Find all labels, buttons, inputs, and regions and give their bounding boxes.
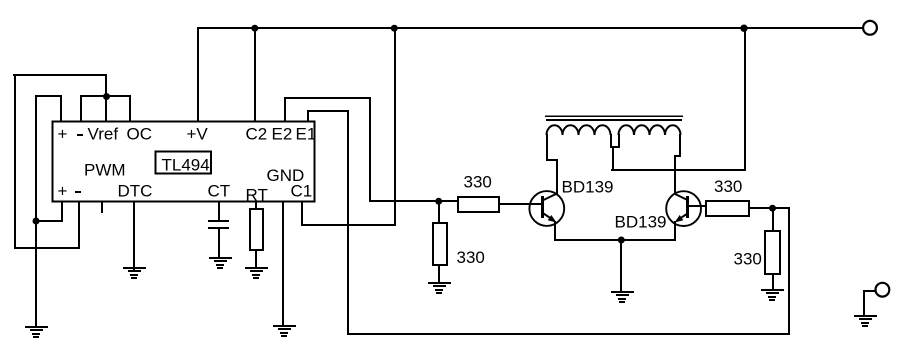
pin stub (unconnected, below box) xyxy=(101,202,103,213)
transistor Q1 BD139 xyxy=(529,191,564,226)
wire E1 long drop xyxy=(347,110,349,335)
node emitter rail junction xyxy=(618,237,625,244)
transistor Q2 BD139 (mirrored) xyxy=(666,191,701,226)
wire E1 loop top xyxy=(307,110,349,112)
resistor R3 330 (vertical) xyxy=(433,223,447,265)
wire transformer left end xyxy=(546,134,548,161)
svg-text:E1: E1 xyxy=(296,125,317,144)
svg-text:DTC: DTC xyxy=(118,182,153,201)
wire plus-loop left vertical down to ground xyxy=(35,95,37,328)
capacitor CT xyxy=(208,220,229,229)
node C2-rail junction xyxy=(251,25,258,32)
wire OC pin xyxy=(129,95,131,122)
wire C2 pin to rail xyxy=(254,27,256,122)
resistor RT xyxy=(250,209,263,250)
wire Q1 emitter drop xyxy=(554,221,556,240)
wire T1 center tap right end xyxy=(618,134,620,147)
wire Vref pin vertical xyxy=(105,74,107,122)
wire minus-top to OC horizontal xyxy=(80,95,131,97)
wire loop A top horizontal (Vref rail) xyxy=(13,74,107,76)
svg-text:PWM: PWM xyxy=(84,161,126,180)
svg-text:CT: CT xyxy=(208,182,231,201)
ground G5 (IC GND) xyxy=(273,325,296,337)
pin label - (top) xyxy=(77,134,83,136)
transformer T1 right winding xyxy=(619,125,681,135)
wire C1 riser to rail xyxy=(394,27,396,225)
svg-text:BD139: BD139 xyxy=(615,213,667,232)
node base-2 junction xyxy=(769,205,776,212)
ground G6 (R3) xyxy=(428,282,451,294)
svg-text:E2: E2 xyxy=(272,125,293,144)
wire E2 pin xyxy=(284,97,286,122)
wire plus-top pin xyxy=(60,95,62,122)
resistor R2 330 (horizontal) xyxy=(706,201,749,216)
wire T1 center tap join xyxy=(610,146,620,148)
terminal J2 (bottom right) xyxy=(876,283,890,297)
svg-text:TL494: TL494 xyxy=(162,156,210,175)
svg-text:330: 330 xyxy=(714,177,742,196)
node base-1 junction xyxy=(435,198,442,205)
wire RT pin to resistor xyxy=(255,202,257,209)
svg-text:Vref: Vref xyxy=(88,125,119,144)
wire E2 to R1 junction xyxy=(369,200,458,202)
wire capacitor to ground xyxy=(218,229,220,259)
node C1-rail junction xyxy=(391,25,398,32)
wire right riser (E1 feedback) xyxy=(788,207,790,335)
wire E2 loop top xyxy=(284,97,371,99)
label TL494 box xyxy=(156,152,212,174)
wire transformer tap riser to rail xyxy=(744,27,746,170)
svg-text:330: 330 xyxy=(464,173,492,192)
wire +V pin to rail xyxy=(197,27,199,122)
svg-text:C2: C2 xyxy=(246,125,268,144)
wire E1 pin xyxy=(307,110,309,122)
wire J2 stub xyxy=(863,290,875,292)
op-amp U1 TL494 body xyxy=(53,122,315,202)
svg-text:330: 330 xyxy=(457,248,485,267)
svg-text:+: + xyxy=(58,182,68,201)
ground G3 (CT) xyxy=(209,257,232,269)
resistor R1 330 (horizontal) xyxy=(458,197,499,212)
wire R3 to ground xyxy=(438,265,440,283)
wire Q1 collector jog xyxy=(546,159,558,161)
wire emitter rail xyxy=(554,239,675,241)
wire J2 drop xyxy=(863,290,865,317)
wire T1 tap horizontal to riser xyxy=(611,169,746,171)
node Vref / minus-OC junction xyxy=(103,93,110,100)
wire T1 center tap drop xyxy=(612,146,614,170)
terminal J1 (top right) xyxy=(863,21,877,35)
wire Q1 collector riser xyxy=(556,159,558,194)
svg-text:330: 330 xyxy=(734,250,762,269)
wire plus-bottom pin drop xyxy=(61,202,63,222)
wire plus-top loop horizontal xyxy=(35,95,62,97)
wire Q2 collector riser xyxy=(674,155,676,194)
wire CT pin to capacitor xyxy=(218,202,220,220)
wire R4 to ground xyxy=(772,274,774,290)
ground G8 (R4) xyxy=(761,289,784,301)
wire Q2 emitter drop xyxy=(674,221,676,241)
wire emitter rail to ground xyxy=(620,240,622,292)
svg-text:+: + xyxy=(58,125,68,144)
wire Q2 collector jog xyxy=(674,155,681,157)
node plus-loop junction xyxy=(33,218,40,225)
ground G1 (left loop) xyxy=(25,326,48,338)
ground G2 (DTC) xyxy=(123,267,146,279)
resistor R4 330 (vertical) xyxy=(765,231,780,274)
transformer T1 left winding xyxy=(547,125,611,135)
transformer T1 core xyxy=(545,116,683,122)
svg-text:BD139: BD139 xyxy=(562,177,614,196)
ground G4 (RT) xyxy=(245,267,268,279)
wire Q2 base to R2 xyxy=(689,205,707,207)
wire minus bottom pin drop xyxy=(78,202,80,249)
wire E2 loop drop xyxy=(369,97,371,202)
wire R2 to corner xyxy=(749,207,790,209)
svg-text:OC: OC xyxy=(127,125,153,144)
wire top +V rail xyxy=(197,27,862,29)
wire R1 to Q1 base xyxy=(499,203,542,205)
wire T1 center tap left end xyxy=(610,134,612,147)
wire plus-bottom horizontal xyxy=(35,220,62,222)
wire DTC pin to ground xyxy=(133,202,135,270)
wire junction to R3 xyxy=(438,202,440,222)
wire C1 pin drop xyxy=(301,202,303,226)
wire RT resistor to ground xyxy=(255,251,257,267)
svg-text:RT: RT xyxy=(246,186,268,205)
ground G7 (emitters) xyxy=(611,291,634,303)
wire loop A bottom horizontal to minus pin xyxy=(14,247,80,249)
wire junction to R4 xyxy=(772,208,774,231)
wire minus-top pin xyxy=(80,95,82,122)
svg-text:+V: +V xyxy=(187,125,209,144)
svg-text:C1: C1 xyxy=(291,182,313,201)
ground G9 (J2) xyxy=(854,315,877,327)
wire transformer right end xyxy=(679,134,681,156)
wire GND pin to ground xyxy=(282,202,284,326)
wire C1 horizontal to riser xyxy=(301,224,396,226)
wire loop A left vertical xyxy=(14,74,16,249)
wire bottom rail xyxy=(347,333,790,335)
pin label - (bottom) xyxy=(75,191,81,193)
node transformer-tap rail junction xyxy=(740,25,747,32)
